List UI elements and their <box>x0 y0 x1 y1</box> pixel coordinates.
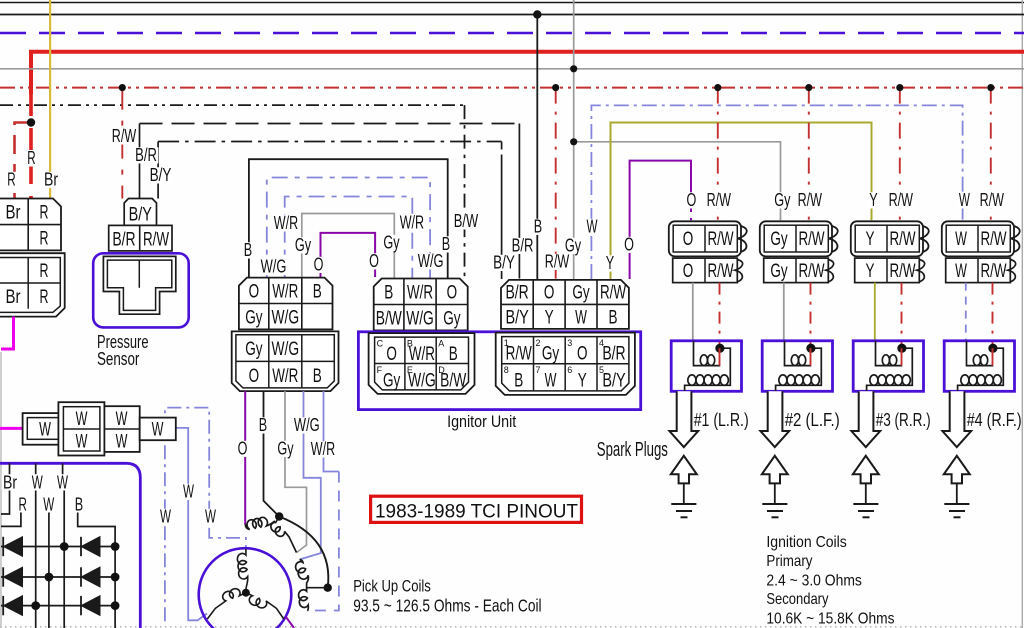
frame border top <box>0 2 1024 4</box>
label O below stack <box>236 441 249 457</box>
wire: B elbow to right bus <box>78 513 115 628</box>
svg-text:W: W <box>959 189 970 210</box>
label B/R ignitor <box>510 238 535 254</box>
coil 4 secondary winding <box>958 348 1004 391</box>
svg-text:W/R: W/R <box>272 365 298 387</box>
svg-text:R/W: R/W <box>112 125 137 146</box>
svg-text:O: O <box>683 228 694 250</box>
wire: W vertical 1 <box>35 491 37 628</box>
bus: black dash-dot-dot wire y=105 <box>0 104 465 106</box>
connector: left 4-pin (Br/R) lower shell <box>0 253 65 316</box>
label W wire 3 <box>204 509 218 525</box>
svg-text:W: W <box>76 431 88 453</box>
label Gy above coil 2 <box>773 192 792 208</box>
svg-text:W: W <box>955 228 967 250</box>
svg-text:A: A <box>438 339 444 349</box>
svg-text:7: 7 <box>536 365 541 375</box>
svg-text:Gy: Gy <box>572 282 590 304</box>
label W/R left stack <box>272 215 299 231</box>
svg-text:B: B <box>384 282 393 304</box>
svg-text:W: W <box>39 419 51 441</box>
rectifier diode row y=605.6 <box>1 605 115 607</box>
label Gy below stack <box>276 441 295 457</box>
label R/W red wire <box>110 128 137 144</box>
wire: W vertical 3 <box>63 491 65 628</box>
coil 3 HT junction dot <box>897 344 906 353</box>
wire: thick red vertical dashed to connector <box>29 94 33 199</box>
bus: gray horizontal wire y=68.8 <box>0 68 1024 70</box>
wire: gray Gy arch middle <box>302 214 395 279</box>
wire: red dashed R/W to pressure connector <box>121 88 123 199</box>
svg-text:O: O <box>577 343 588 365</box>
junction dot R/W coil 3 <box>896 84 903 91</box>
svg-text:R/W: R/W <box>600 282 627 304</box>
connector: pickup bottom shell Gy W/G / O W/R B <box>232 331 339 391</box>
svg-text:Gy: Gy <box>770 260 788 282</box>
pickup coil 2 winding a <box>296 560 328 588</box>
svg-text:B/W: B/W <box>376 308 403 330</box>
label W/G below stack <box>292 417 321 433</box>
wire: B/Y drop right <box>501 158 503 279</box>
svg-text:8: 8 <box>504 365 509 375</box>
diode left row 546.5 <box>4 537 23 556</box>
svg-text:B/R: B/R <box>512 235 534 256</box>
svg-text:W/R: W/R <box>407 282 433 304</box>
svg-text:W/G: W/G <box>408 370 436 392</box>
coil 2 HT junction dot <box>806 344 815 353</box>
svg-text:B/Y: B/Y <box>129 204 152 226</box>
svg-text:W: W <box>43 494 54 515</box>
label R thick red wire <box>26 150 37 166</box>
svg-text:B: B <box>534 216 542 237</box>
svg-text:R/W: R/W <box>707 260 734 282</box>
label Br yellow wire <box>43 172 60 188</box>
label B <box>73 497 84 513</box>
label B/Y <box>148 167 173 183</box>
svg-text:Primary: Primary <box>766 553 812 570</box>
wire: red dashed R/W to ignitor <box>555 88 557 279</box>
wire: B/R drop right <box>518 124 520 279</box>
label W wire 2 <box>182 484 196 500</box>
diode left row 577 <box>4 567 23 586</box>
svg-text:B: B <box>609 307 618 329</box>
wire: violet from alternator <box>286 616 295 628</box>
label Y ignitor <box>604 255 615 271</box>
label Gy right stack <box>382 235 401 251</box>
svg-text:Y: Y <box>866 228 875 250</box>
rectifier input stub Br <box>9 463 11 474</box>
wire: red R/W into coil 4 <box>992 283 994 349</box>
label R/W ignitor <box>543 254 570 270</box>
svg-text:W/G: W/G <box>418 250 444 271</box>
wire: gray Gy vertical x=573.7 <box>573 0 575 279</box>
svg-text:R: R <box>40 286 49 308</box>
svg-text:Gy: Gy <box>542 343 560 365</box>
svg-text:B: B <box>449 343 458 365</box>
pickup coil 2 winding b <box>299 588 309 611</box>
component: alternator stator circle <box>199 548 292 628</box>
frame border right <box>1021 0 1023 628</box>
svg-text:R: R <box>40 228 49 250</box>
svg-text:B/W: B/W <box>454 210 479 231</box>
wire: red dashed R/W drop to coil 1 connector <box>717 88 719 221</box>
label R <box>17 497 28 513</box>
rectifier input stub W1 <box>35 463 37 474</box>
svg-text:W/G: W/G <box>406 308 434 330</box>
label W ignitor <box>585 219 599 235</box>
svg-text:Gy: Gy <box>443 308 461 330</box>
connector: coil 2 plug row 1 <box>760 221 832 256</box>
svg-text:Y: Y <box>606 252 614 273</box>
svg-text:O: O <box>249 365 260 387</box>
svg-text:Sensor: Sensor <box>97 349 139 369</box>
label O ignitor <box>623 237 636 253</box>
spark plug lead arrow coil 3 <box>851 391 880 447</box>
wire: black B to pickup junction <box>264 391 280 516</box>
wire: periwinkle dash-dot W loop <box>165 408 246 622</box>
svg-text:W: W <box>160 506 171 527</box>
rectifier input stub W2 <box>62 463 64 474</box>
label Br <box>2 475 19 491</box>
label W <box>30 475 44 491</box>
svg-text:10.6K ~ 15.8K Ohms: 10.6K ~ 15.8K Ohms <box>766 610 894 627</box>
pickup coil 1 winding a <box>245 517 275 529</box>
svg-text:1983-1989 TCI PINOUT: 1983-1989 TCI PINOUT <box>375 502 578 523</box>
label W/G right stack <box>416 253 445 269</box>
svg-text:Br: Br <box>6 202 21 224</box>
svg-text:B: B <box>244 239 252 260</box>
svg-text:B/R: B/R <box>602 343 625 365</box>
spark plug arrow coil 3 <box>853 456 879 484</box>
connector: pickup top block O W/R B / Gy W/G <box>239 278 333 330</box>
wire: magenta from left connector <box>1 317 14 349</box>
svg-text:R: R <box>40 202 49 224</box>
connector: coil 4 plug row 2 <box>946 258 1011 283</box>
component: rectifier purple box <box>0 463 140 628</box>
bus: black horizontal wire y=14.5 <box>0 14 1024 16</box>
connector: ignitor-left bottom shell <box>369 333 475 394</box>
svg-text:Gy: Gy <box>245 307 263 329</box>
connector: ignitor-right top block B/R O Gy R/W / B/Y Y W B <box>501 280 629 329</box>
coil 2 secondary winding <box>776 348 822 391</box>
bus: thick red horizontal wire y=51.7 <box>31 52 1024 94</box>
wire: violet O to pickup coil 1 <box>244 391 246 524</box>
bus: black dash-dot wire y=141.5 (B/Y link) <box>158 141 502 143</box>
svg-text:O: O <box>687 189 697 210</box>
wire: olive Y arch ignitor to coil 3 <box>611 123 872 280</box>
spark plug lead arrow coil 1 <box>669 391 698 447</box>
svg-text:O: O <box>238 438 248 459</box>
wire: red dashed R/W drop to coil 2 connector <box>808 88 810 221</box>
svg-text:Spark Plugs: Spark Plugs <box>597 439 668 461</box>
svg-text:Br: Br <box>3 472 17 493</box>
svg-text:R: R <box>19 494 27 515</box>
svg-text:B/W: B/W <box>440 370 467 392</box>
label W wire 1 <box>159 509 173 525</box>
wire: R elbow <box>1 513 21 527</box>
junction dot R/W ignitor <box>552 84 559 91</box>
connector: alternator W plug right cell <box>140 418 176 441</box>
spark plug arrow coil 1 <box>671 456 697 484</box>
svg-text:B/Y: B/Y <box>602 370 625 392</box>
bus: red dash-dot-dot horizontal wire y=87.6 <box>0 87 1024 89</box>
svg-text:Gy: Gy <box>383 232 400 253</box>
wire: black B arch <box>249 159 448 278</box>
svg-text:R/W: R/W <box>889 260 916 282</box>
ground symbol coil 4 <box>944 503 969 505</box>
svg-text:#3 (R.R.): #3 (R.R.) <box>876 410 931 430</box>
svg-text:Br: Br <box>44 169 58 190</box>
junction dot R/W coil 2 <box>805 84 812 91</box>
coil 1 secondary winding <box>685 348 731 391</box>
coil 1 HT junction dot <box>715 344 724 353</box>
wire: black dash-dot B/W drop <box>464 105 466 278</box>
spark plug arrow coil 4 <box>944 456 970 484</box>
wire: black B vertical x=537 <box>536 15 538 280</box>
spark plug lead arrow coil 2 <box>760 391 789 447</box>
svg-text:Pick Up Coils: Pick Up Coils <box>353 578 431 596</box>
bus: black long-dash wire y=123.5 (B/R link) <box>140 123 520 125</box>
component: ignition coil 3 <box>853 341 923 392</box>
component: ignition coil 2 <box>762 341 832 392</box>
svg-text:B: B <box>313 281 322 303</box>
diode right row 577 <box>81 567 100 586</box>
connector: ignitor-left top block B W/R O / B-W W/G Gy <box>374 279 468 331</box>
svg-text:Gy: Gy <box>770 228 788 250</box>
rectifier diode row y=546.5 <box>1 546 115 548</box>
svg-text:Y: Y <box>866 260 875 282</box>
junction dot Gy at gray bus <box>570 65 577 72</box>
wire: signal wire into coil 1 <box>692 283 694 341</box>
svg-text:B: B <box>259 414 267 435</box>
label O above coil 1 <box>685 192 698 208</box>
wire: yellow Br vertical <box>49 0 51 199</box>
pickup junction dot 1 <box>275 512 283 520</box>
connector: coil 1 plug row 2 <box>673 258 738 283</box>
svg-text:O: O <box>386 343 397 365</box>
wire: violet O arch ignitor to coil 1 <box>630 161 691 279</box>
svg-text:O: O <box>314 254 324 275</box>
svg-text:W: W <box>587 216 598 237</box>
svg-text:B/R: B/R <box>135 144 157 165</box>
ground symbol coil 1 <box>671 503 696 505</box>
connector: pressure sensor B/R R/W row <box>109 225 172 251</box>
svg-text:W: W <box>205 506 216 527</box>
svg-text:#4 (R.F.): #4 (R.F.) <box>967 410 1022 430</box>
label W above coil 4 <box>957 192 971 208</box>
label Y above coil 3 <box>868 192 879 208</box>
ground symbol coil 2 <box>762 503 787 505</box>
svg-text:W: W <box>57 472 68 493</box>
svg-text:W: W <box>116 431 128 453</box>
svg-text:W: W <box>545 370 557 392</box>
svg-text:R: R <box>7 169 15 190</box>
wire: gray Gy arch to coil 2 <box>574 142 781 221</box>
connector: alternator W plug right block <box>104 406 139 452</box>
wire: gray Gy to pickup coil 1 <box>285 391 307 552</box>
label W/R right stack <box>398 215 425 231</box>
wire: red R/W into coil 2 <box>810 283 812 349</box>
component: pressure sensor body <box>93 253 189 327</box>
svg-text:W: W <box>183 481 194 502</box>
svg-text:R/W: R/W <box>980 260 1007 282</box>
label B/R <box>134 147 159 163</box>
label R/W above coil 1 <box>705 192 732 208</box>
svg-text:R/W: R/W <box>143 229 170 251</box>
svg-text:2.4 ~ 3.0 Ohms: 2.4 ~ 3.0 Ohms <box>766 572 862 589</box>
wire: red branch R to left connector <box>15 123 32 199</box>
svg-text:R/W: R/W <box>707 189 732 210</box>
wire: W vertical 2 <box>48 513 50 628</box>
spark plug lead arrow coil 4 <box>942 391 971 447</box>
wire: signal wire into coil 3 <box>874 283 876 341</box>
label B right stack <box>440 236 451 252</box>
label R thin red wire <box>6 172 17 188</box>
svg-text:R/W: R/W <box>798 228 825 250</box>
stator winding lower-left <box>207 589 246 619</box>
svg-text:O: O <box>369 250 379 271</box>
label R/W above coil 4 <box>978 192 1005 208</box>
label B/W right stack <box>452 213 479 229</box>
title box 1983-1989 TCI PINOUT <box>371 496 582 522</box>
pickup coil 1 winding b <box>271 517 297 553</box>
label Gy ignitor <box>563 238 582 254</box>
svg-text:O: O <box>683 260 694 282</box>
coil 3 secondary winding <box>867 348 913 391</box>
svg-text:R: R <box>40 260 49 282</box>
wire: periwinkle W/G to pickup coil 2 <box>300 391 321 559</box>
connector: coil 4 plug row 1 <box>942 221 1014 256</box>
label B ignitor <box>532 219 543 235</box>
svg-text:W/G: W/G <box>294 414 320 435</box>
svg-text:R/W: R/W <box>798 189 823 210</box>
svg-text:W/R: W/R <box>272 281 298 303</box>
svg-text:B: B <box>75 494 83 515</box>
component: ignition coil 4 <box>944 341 1014 392</box>
component: ignitor unit purple box <box>358 332 640 410</box>
wire: red R/W into coil 1 <box>719 283 721 349</box>
component: ignition coil 1 <box>671 341 741 392</box>
coil 1 primary winding <box>694 341 721 366</box>
rectifier junction dots <box>60 542 69 551</box>
wire: red dashed R/W drop to coil 4 connector <box>990 88 992 221</box>
bus: purple dashed horizontal wire y=33 <box>0 32 1024 35</box>
svg-text:Gy: Gy <box>774 189 791 210</box>
svg-text:Secondary: Secondary <box>766 591 828 608</box>
coil 4 primary winding <box>967 341 994 366</box>
svg-text:W/R: W/R <box>400 212 424 233</box>
connector: coil 3 plug row 1 <box>851 221 923 256</box>
label W/G left stack <box>259 259 288 275</box>
svg-text:W/G: W/G <box>272 307 300 329</box>
connector: pressure sensor B/Y cell <box>124 199 156 226</box>
svg-text:B: B <box>442 233 450 254</box>
svg-text:W: W <box>32 472 43 493</box>
svg-text:W: W <box>955 260 967 282</box>
label B below stack <box>257 417 268 433</box>
svg-text:3: 3 <box>567 338 572 348</box>
svg-text:B: B <box>514 370 523 392</box>
svg-text:F: F <box>377 365 383 375</box>
ground symbol coil 3 <box>853 503 878 505</box>
svg-text:Ignition Coils: Ignition Coils <box>766 534 846 551</box>
wire: periwinkle W arch ignitor to coil 4 <box>591 105 962 279</box>
connector: coil 2 plug row 2 <box>764 258 829 283</box>
svg-text:Y: Y <box>869 189 877 210</box>
svg-text:B/R: B/R <box>505 282 528 304</box>
wire: red dashed R/W drop to coil 3 connector <box>899 88 901 221</box>
wire: signal wire into coil 2 <box>783 283 785 341</box>
svg-text:R/W: R/W <box>889 228 916 250</box>
svg-text:Ignitor Unit: Ignitor Unit <box>447 413 517 431</box>
label R/W above coil 2 <box>796 192 823 208</box>
diode right row 605.6 <box>81 596 100 615</box>
label O right stack <box>368 253 381 269</box>
svg-text:R: R <box>27 147 35 168</box>
connector: alternator W plug middle block <box>58 402 104 455</box>
wire: B/Y drop left <box>157 142 159 199</box>
coil 4 HT junction dot <box>988 344 997 353</box>
svg-text:R/W: R/W <box>798 260 825 282</box>
wire: B/R drop left <box>139 124 141 199</box>
svg-text:Gy: Gy <box>383 370 401 392</box>
junction dot B bus <box>533 10 541 18</box>
svg-text:B/Y: B/Y <box>150 164 172 185</box>
svg-text:Gy: Gy <box>277 438 294 459</box>
svg-text:B/Y: B/Y <box>505 307 528 329</box>
svg-text:O: O <box>624 234 634 255</box>
label B left stack <box>242 242 253 258</box>
label W/R below stack <box>309 441 336 457</box>
svg-text:R/W: R/W <box>980 228 1007 250</box>
spark plug arrow coil 2 <box>762 456 788 484</box>
svg-text:W: W <box>575 307 587 329</box>
label B/Y ignitor <box>492 255 517 271</box>
junction dot R/W bus <box>119 84 126 91</box>
stator winding lower-right <box>246 593 284 619</box>
svg-text:Y: Y <box>578 370 587 392</box>
diode left row 605.6 <box>4 596 23 615</box>
svg-text:W: W <box>76 408 88 430</box>
label R/W above coil 3 <box>887 192 914 208</box>
svg-text:R/W: R/W <box>707 228 734 250</box>
svg-text:C: C <box>377 339 384 349</box>
pickup junction dot 2 <box>324 584 332 592</box>
svg-text:Gy: Gy <box>565 235 582 256</box>
wire: periwinkle solid W from connector to alternator <box>176 428 207 620</box>
svg-text:W/R: W/R <box>274 212 298 233</box>
svg-text:O: O <box>447 282 458 304</box>
wire: Br elbow <box>1 491 10 515</box>
diode right row 546.5 <box>81 537 100 556</box>
connector: coil 1 plug row 1 <box>669 221 741 256</box>
stator winding up <box>237 549 247 589</box>
junction dot Gy arch <box>570 138 577 145</box>
connector: left 4-pin (Br/R) upper block <box>0 199 61 251</box>
svg-text:Gy: Gy <box>245 338 263 360</box>
svg-text:O: O <box>249 281 260 303</box>
svg-text:R/W: R/W <box>980 189 1005 210</box>
junction dot R/W coil 4 <box>987 84 994 91</box>
pickup link curve <box>279 517 328 588</box>
svg-text:2: 2 <box>536 338 541 348</box>
svg-text:Gy: Gy <box>295 234 312 255</box>
label Gy left stack <box>293 237 312 253</box>
wire: signal wire into coil 4 <box>965 283 967 341</box>
junction dot R/W coil 1 <box>714 84 721 91</box>
rectifier diode row y=577 <box>1 576 115 578</box>
svg-text:Y: Y <box>545 307 554 329</box>
